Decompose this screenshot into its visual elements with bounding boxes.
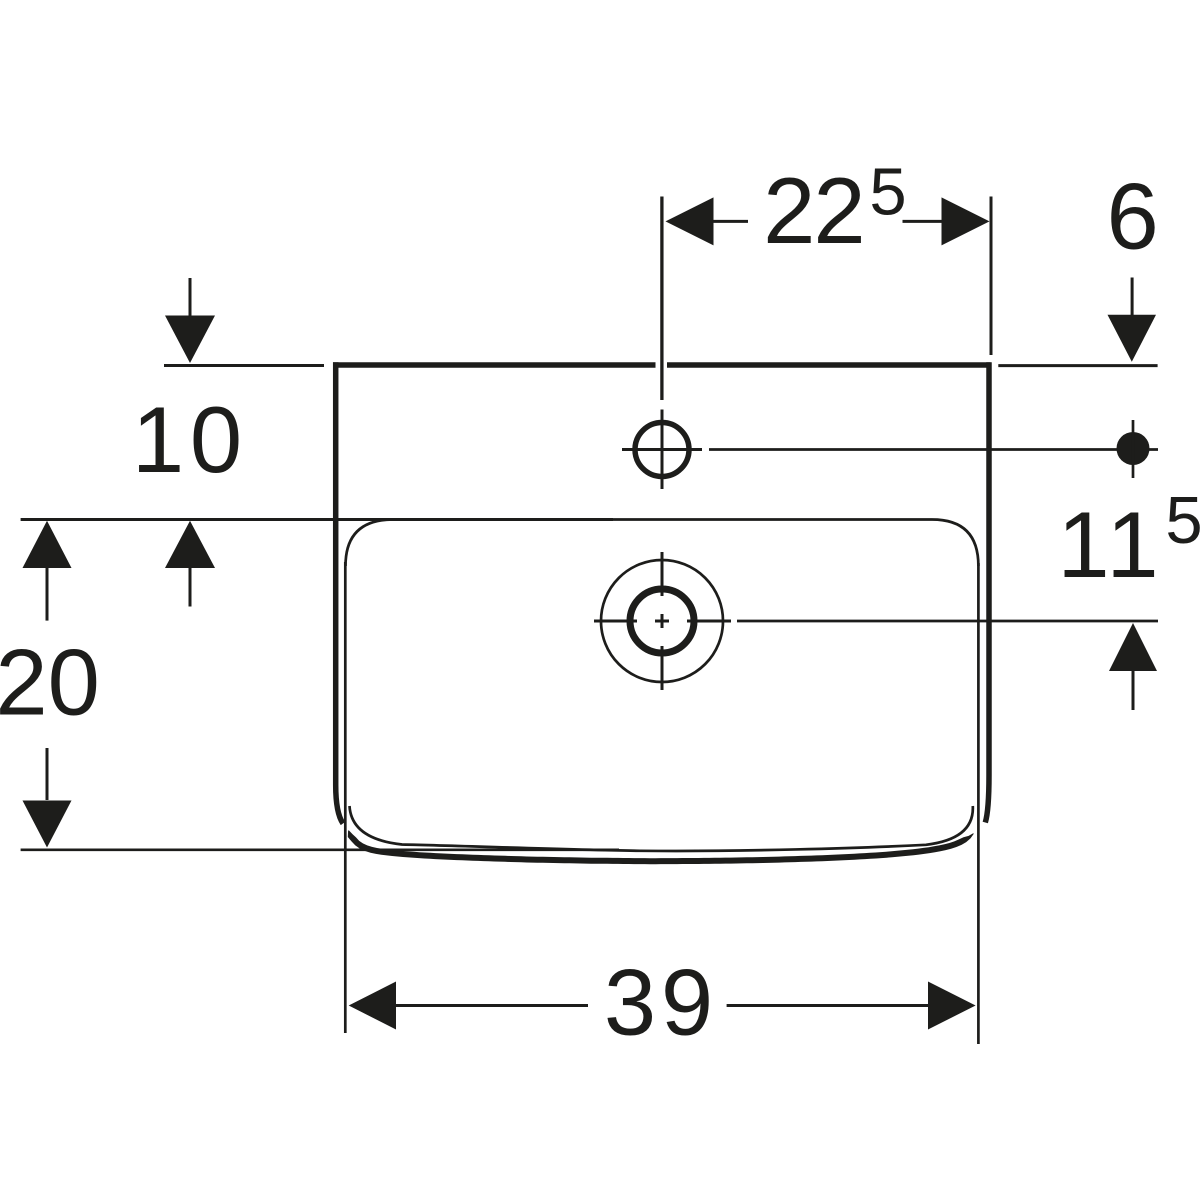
drain inner ring (630, 589, 694, 653)
svg-text:2: 2 (813, 158, 865, 263)
sink outer rim left edge (336, 362, 343, 823)
dim 20 up arrow (23, 521, 72, 568)
dim 22.5 right extension line (990, 197, 993, 356)
centerline faucet to side hole dot (709, 448, 1158, 451)
dim 22.5 left tail (714, 220, 749, 223)
svg-text:5: 5 (869, 155, 906, 230)
faucet hole vertical centerline / 22.5 left extension (660, 197, 663, 401)
sink outer rim top edge (333, 362, 991, 368)
dim 39 left arrow (349, 982, 396, 1030)
drain crosshair horizontal left (594, 620, 637, 623)
basin inner bottom edge with corners (350, 806, 973, 851)
svg-text:6: 6 (1107, 164, 1159, 269)
basin inner right edge / 39 right extension line (977, 563, 980, 1044)
drain crosshair horizontal right (687, 620, 731, 623)
dim 6 down arrow (1131, 278, 1134, 316)
dimension line 11.5 (drain to right edge) (737, 620, 1158, 623)
drain crosshair vertical bottom (661, 646, 664, 690)
dim 20 down arrow (46, 748, 49, 800)
dim 22.5 right arrow (942, 197, 990, 245)
svg-text:5: 5 (1165, 483, 1200, 558)
extension line basin-bottom level (20 dim) (21, 848, 619, 851)
extension line rim-top level right (6 dim) (998, 364, 1157, 367)
faucet hole horizontal crosshair tick (622, 448, 702, 451)
dim 22.5 right tail (903, 220, 942, 223)
svg-text:1: 1 (1106, 492, 1158, 597)
drain outer circle (601, 560, 723, 682)
svg-text:2: 2 (763, 158, 815, 263)
faucet hole circle (635, 423, 689, 477)
drain crosshair vertical top (661, 552, 664, 596)
svg-text:1: 1 (132, 387, 184, 492)
faucet hole vertical crosshair tick (661, 410, 664, 490)
dim 39 left tail (396, 1004, 588, 1007)
drain center cross (655, 614, 669, 628)
dim 22.5 left arrow (666, 197, 714, 245)
svg-text:0: 0 (190, 387, 242, 492)
sink outer rim bottom edge (348, 830, 974, 864)
dim 11.5 up arrow (1109, 623, 1157, 671)
dim 10 down arrow (189, 278, 192, 316)
sink outer rim right edge (985, 362, 989, 822)
dim 39 right arrow (928, 982, 976, 1030)
svg-text:9: 9 (661, 950, 713, 1055)
basin inner left edge / 39 left extension line (344, 562, 347, 1033)
extension line rim-top level left (10 dim) (164, 364, 324, 367)
side hole dot (1117, 432, 1150, 465)
dim 39 right tail (727, 1004, 931, 1007)
extension line basin-top level (10/20 dims) (21, 518, 613, 521)
side hole vertical tick (1132, 420, 1135, 478)
svg-text:20: 20 (0, 630, 100, 735)
svg-text:3: 3 (604, 950, 656, 1055)
svg-text:1: 1 (1057, 492, 1109, 597)
basin inner top edge with corners (346, 520, 979, 567)
dim 10 up arrow (165, 521, 215, 568)
